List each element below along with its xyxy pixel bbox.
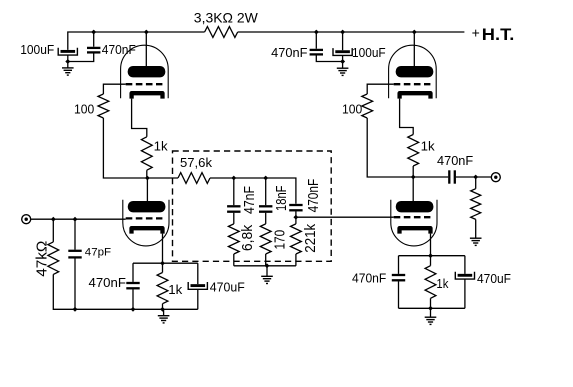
capacitor 18nF (259, 205, 272, 207)
wire 470nF-TR bottom lead (316, 55, 342, 61)
resistor 1k upper-left body (141, 137, 152, 170)
wire 470nF-TL bottom lead (68, 53, 94, 61)
svg-text:470nF: 470nF (271, 46, 308, 60)
wire plate lead V3 upper-right (413, 32, 415, 66)
capacitor 470uF cathode-right (458, 274, 473, 277)
junction dot 100uF-TR rail (340, 30, 345, 35)
junction dot below 100uF-TL (65, 59, 70, 64)
capacitor 470nF top-left (87, 47, 100, 49)
wire ground stub left bus (163, 309, 165, 315)
svg-text:47nF: 47nF (241, 186, 258, 214)
tube V4 lower-right plate (396, 201, 434, 212)
wire cathode top bus right (399, 255, 465, 257)
wire 47pF bottom lead (74, 258, 76, 309)
wire branch1 mid lead (233, 213, 235, 224)
ground below 100uF-TR (337, 67, 349, 69)
svg-text:470uF: 470uF (477, 272, 511, 286)
tube V3 upper-right plate (396, 66, 434, 77)
wire 47pF top lead (74, 219, 76, 250)
wire V1 grid to 100 ohm (103, 84, 125, 94)
wire 470uF-CR bottom lead (464, 279, 466, 308)
wire input to V2 grid (31, 218, 126, 220)
wire branch1 top lead (233, 178, 235, 205)
junction dot branch3 tap (293, 215, 298, 220)
capacitor 47nF (227, 205, 240, 207)
wire coupling cap to output (456, 176, 492, 178)
capacitor 470nF coupling (448, 170, 450, 183)
wire 1k upper-right bottom (412, 166, 414, 177)
svg-text:470uF: 470uF (210, 281, 245, 295)
wire 100 left bottom to node (103, 118, 147, 178)
tube V3 upper-right envelope (389, 45, 437, 98)
capacitor 470uF cathode-left (191, 284, 206, 287)
wire plate lead V4 lower-right (412, 177, 414, 201)
svg-text:1k: 1k (436, 276, 448, 291)
resistor 1k cathode-right body (425, 266, 436, 299)
junction dot EQ bus (265, 263, 270, 268)
wire plate lead V2 lower-left (146, 178, 148, 201)
tube V2 lower-left plate (128, 201, 166, 212)
junction dot plate V1 on rail (144, 30, 149, 35)
wire node A to 57,6k (147, 177, 178, 179)
svg-text:470nF: 470nF (305, 179, 322, 213)
resistor 170 body (260, 224, 271, 254)
resistor 100 right body (362, 94, 373, 118)
wire V3 grid to 100 ohm (367, 84, 394, 94)
svg-text:100uF: 100uF (352, 46, 386, 60)
resistor 100 left body (98, 94, 109, 118)
wire V3 cathode jog (400, 99, 414, 135)
svg-text:1k: 1k (168, 282, 183, 297)
tube V1 upper-left envelope (121, 45, 169, 98)
junction dot plate V3 on rail (412, 30, 417, 35)
ground below 1k-CL (158, 315, 170, 317)
resistor 1k cathode-left body (157, 273, 168, 304)
tube V2 lower-left cathode (132, 228, 163, 233)
wire 1k-CR bottom (430, 298, 432, 308)
wire V2 cathode lead (162, 234, 164, 264)
wire 470nF-CR bottom lead (398, 281, 400, 308)
tube V3 upper-right grid (394, 83, 431, 85)
wire cathode top bus left (133, 262, 198, 264)
svg-text:H.T.: H.T. (482, 25, 515, 44)
svg-text:470nF: 470nF (89, 276, 127, 290)
junction dot output node (473, 175, 478, 180)
svg-text:100: 100 (342, 102, 362, 116)
wire 57,6k to branches (210, 178, 296, 204)
wire right bottom bus (399, 307, 465, 309)
wire 100uF-TR bottom lead (342, 55, 344, 68)
wire 1k-CR top (430, 256, 432, 266)
wire 470nF-CL bottom lead (132, 289, 134, 309)
wire 470uF-CR top lead (464, 256, 466, 274)
wire 470nF-CL top lead (132, 263, 134, 282)
wire branch1 bottom lead (233, 254, 235, 266)
svg-text:170: 170 (271, 230, 288, 250)
wire 470nF-TR top lead (315, 32, 317, 49)
junction dot bus 470nF-CL (131, 307, 136, 312)
wire V1 cathode jog (132, 99, 147, 137)
svg-text:57,6k: 57,6k (180, 155, 212, 170)
tube V4 lower-right envelope (391, 200, 437, 246)
capacitor 470nF cathode-right (392, 274, 405, 276)
svg-text:470nF: 470nF (437, 153, 473, 168)
tube V3 upper-right cathode (400, 93, 431, 98)
resistor R 3,3K 2W body (205, 27, 238, 38)
junction dot V4 cathode (428, 253, 433, 258)
capacitor 47pF (68, 250, 81, 252)
svg-text:6,8k: 6,8k (239, 224, 256, 251)
svg-text:47kΩ: 47kΩ (33, 241, 50, 277)
capacitor 100uF top-right (335, 50, 350, 53)
junction dot 470nF-TR rail (314, 30, 319, 35)
wire output resistor bottom (475, 219, 477, 238)
capacitor 100uF top-left (61, 50, 76, 53)
wire ground stub right bus (430, 308, 432, 317)
wire V4 cathode lead (430, 234, 432, 256)
wire 47k top lead (52, 219, 54, 242)
wire 470nF-CR top lead (398, 256, 400, 274)
tube V2 lower-left envelope (123, 200, 169, 246)
tube V1 upper-left grid (126, 83, 163, 85)
ground below EQ box (261, 275, 273, 277)
junction dot input node 47k (51, 217, 56, 222)
tube V4 lower-right grid (394, 216, 431, 218)
svg-text:470nF: 470nF (352, 272, 387, 286)
resistor 1k upper-right body (408, 135, 419, 167)
resistor 6,8k body (228, 224, 239, 254)
wire 100 right bottom to node (367, 118, 413, 177)
wire 470uF-CL bottom lead (197, 289, 199, 309)
resistor 47k body (48, 242, 59, 275)
resistor 57,6k body (178, 173, 210, 184)
wire EQ ground stub (266, 266, 268, 277)
wire branch3 bottom lead (295, 254, 297, 266)
tube V2 lower-left grid (126, 217, 163, 219)
wire 470uF-CL top lead (197, 263, 199, 284)
capacitor 470nF cathode-left (126, 282, 139, 284)
ground below 1k-CR (425, 316, 437, 318)
wire 1k-CL top (162, 263, 164, 272)
junction dot below 100uF-TR (340, 59, 345, 64)
junction dot 47pF bottom (73, 307, 78, 312)
svg-text:1k: 1k (421, 139, 436, 154)
junction dot input node 47pF (73, 217, 78, 222)
EQ network dashed box (173, 151, 332, 261)
ground below 100uF-TL (62, 67, 74, 69)
wire branch3 mid lead (295, 211, 297, 224)
junction dot branch2 top (263, 176, 268, 181)
tube V1 upper-left plate (128, 66, 166, 77)
ground below output resistor (470, 237, 482, 239)
svg-text:47pF: 47pF (85, 246, 112, 258)
wire output resistor top (475, 177, 477, 189)
resistor output load body (471, 189, 481, 220)
wire node B to coupling cap (413, 176, 448, 178)
wire 100uF-TL bottom lead (67, 55, 69, 68)
capacitor 470nF branch3 (289, 204, 302, 206)
tube V1 upper-left cathode (132, 93, 163, 98)
svg-text:100: 100 (74, 102, 94, 116)
svg-text:+: + (472, 25, 480, 41)
svg-text:18nF: 18nF (273, 186, 290, 212)
svg-text:3,3KΩ 2W: 3,3KΩ 2W (194, 9, 259, 25)
junction dot V2 cathode (160, 261, 165, 266)
wire plate lead V1 upper-left (145, 32, 147, 66)
wire 470nF-TL top lead (93, 32, 95, 47)
svg-text:100uF: 100uF (20, 43, 54, 57)
resistor 221k body (291, 224, 302, 254)
wire 1k upper-left bottom (146, 170, 148, 178)
junction dot node B right (411, 175, 416, 180)
wire top rail left segment (68, 32, 205, 50)
svg-text:1k: 1k (154, 139, 169, 154)
wire 100uF-TR top lead (342, 32, 344, 50)
wire branch2 mid lead (265, 213, 267, 224)
wire branch2 top lead (265, 178, 267, 205)
svg-text:221k: 221k (302, 223, 319, 252)
input terminal (22, 215, 31, 224)
junction dot node A left (145, 176, 150, 181)
wire branch2 bottom lead (265, 254, 267, 266)
wire top rail right segment (238, 31, 465, 33)
wire EQ tap to V4 grid (296, 216, 394, 218)
junction dot 470nF-TL rail (91, 30, 96, 35)
wire 1k-CL bottom (162, 304, 164, 310)
tube V4 lower-right cathode (400, 228, 431, 233)
junction dot right bus (428, 306, 433, 311)
wire 47k bottom lead (53, 274, 198, 309)
output terminal (491, 173, 500, 182)
wire EQ bottom bus (234, 265, 296, 267)
junction dot bus 1k-CL (160, 307, 165, 312)
junction dot branch1 top (231, 176, 236, 181)
capacitor 470nF top-right (310, 49, 323, 51)
